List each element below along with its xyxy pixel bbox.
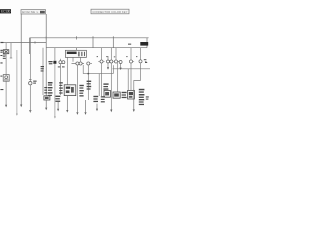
arrow x54 faint (54, 116, 56, 118)
sensor circle x30 (29, 82, 32, 85)
svg-text:EC130: EC130 (1, 10, 10, 14)
wire color text column x59-63 (59, 82, 63, 83)
bottom row labels x55-65 (55, 96, 60, 97)
relay label dark (67, 52, 77, 54)
small box on V2 bottom (44, 96, 50, 100)
connector sq x54 (53, 61, 56, 64)
wire x43 column (42, 48, 44, 95)
joint chip right (140, 42, 148, 46)
wire x54 dark connector column (54, 48, 56, 61)
stub x11 (10, 43, 12, 58)
tick label near x30 sensor (33, 81, 36, 82)
component box x113 (113, 92, 120, 98)
bus B horizontal (2, 42, 46, 44)
bottom arrows (5, 89, 135, 119)
wire V2 feeder (45, 14, 47, 96)
left column component feed (5, 43, 7, 50)
jog wire right mid (83, 65, 113, 74)
crossover circles x77 x80 (76, 62, 79, 65)
arrow x60/67 (66, 110, 68, 113)
tiny pin ticks under circles right (98, 61, 134, 63)
tick above circle (29, 79, 32, 81)
component box mid (A/C relay) (64, 85, 76, 96)
left sensor box (3, 75, 9, 82)
text col x86-92 upper (87, 81, 92, 82)
circle x120 (119, 61, 122, 64)
text col right x138-147 (139, 89, 145, 91)
component box x104 (104, 90, 110, 97)
label E left lower (0, 62, 2, 63)
right stub x116 (115, 48, 117, 60)
right stub x108 (107, 56, 109, 60)
text above box x103-111 (103, 83, 108, 84)
node tick x46 (45, 36, 47, 39)
text col x79-85 (79, 85, 83, 86)
label col x41 (41, 66, 44, 67)
bottom labels x93-100 (93, 96, 98, 97)
wire corner drop bus A (29, 38, 31, 54)
text col x121-128 (122, 92, 127, 93)
right stub x140 (140, 48, 142, 60)
wire drops from relay box (66, 57, 68, 95)
bottom labels x100-106 (101, 96, 105, 97)
bus A horizontal (30, 37, 149, 39)
relay box ECCS (65, 50, 86, 57)
arrow x85 (85, 100, 87, 112)
wire x30 column (29, 38, 31, 82)
node tick x113 (112, 36, 114, 47)
right bus jog (113, 68, 151, 70)
faint small texts around circles (97, 44, 148, 63)
circle x88 (87, 62, 90, 65)
left connector box (3, 50, 9, 54)
label bus B end mark (0, 42, 3, 43)
wire color text column x44-48 (44, 87, 47, 88)
wire left column (5, 54, 7, 75)
hook wire (134, 81, 141, 89)
right stub x111 (110, 48, 112, 60)
wire V1 left feeder (20, 14, 22, 105)
wire left column lower (5, 81, 7, 105)
wire right end drop (146, 38, 148, 48)
arrow x77 (76, 112, 78, 115)
node tick x76 (76, 36, 78, 39)
arrow x58 (57, 102, 59, 109)
node tick x93 (92, 36, 94, 47)
right stub x131 (130, 48, 132, 60)
wire color text column x48-53 (48, 82, 53, 84)
arrow x6 (5, 104, 7, 106)
node tick x35 on bus B (34, 41, 36, 43)
label box CONNECTOR COLOR KEY (91, 9, 129, 14)
connector circles x60-62 (59, 61, 62, 64)
arrow x46 (45, 100, 47, 108)
bus C horizontal (46, 47, 147, 49)
label under circles x58-64 (58, 66, 61, 67)
right stub x101 (101, 48, 103, 60)
svg-text:CONNECTOR COLOR KEY: CONNECTOR COLOR KEY (92, 10, 127, 14)
relay contacts (78, 52, 79, 57)
label F24 left column (0, 50, 2, 51)
arrow x30 (29, 110, 32, 113)
component box x127 (128, 90, 135, 99)
relay feed wire (76, 48, 78, 51)
arrow x111 (110, 110, 112, 113)
title chip EC130 (0, 9, 11, 14)
label box ENGINE (LEFT) (21, 10, 46, 14)
arrow x21 (20, 105, 22, 108)
label near x54 connector (48, 61, 52, 62)
wire x17 faint (16, 50, 18, 114)
svg-text:ENGINE L: ENGINE L (22, 10, 38, 14)
arrow x97 (96, 104, 98, 109)
arrow x133 (133, 109, 135, 112)
arrow x17 (16, 114, 18, 116)
